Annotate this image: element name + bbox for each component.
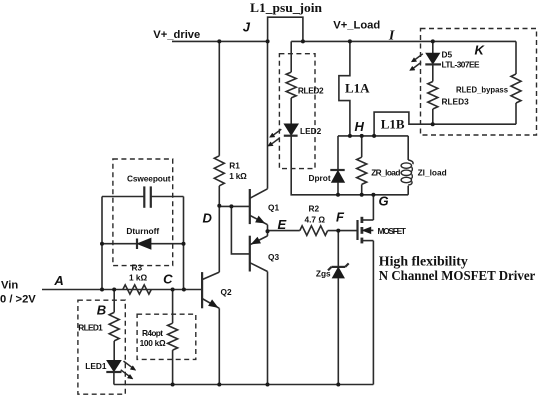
inductor Zl_load coil	[401, 136, 447, 195]
svg-text:1 kΩ: 1 kΩ	[129, 273, 148, 283]
svg-text:Dprot: Dprot	[309, 173, 331, 183]
wire Q2 emitter down	[218, 308, 220, 384]
wire E to Q3 emitter	[267, 231, 269, 236]
svg-text:B: B	[97, 302, 106, 317]
wire MOSFET source down	[372, 241, 374, 385]
resistor RLED2	[286, 72, 296, 98]
resistor R2	[300, 226, 328, 236]
svg-text:F: F	[336, 210, 345, 225]
LED D LED2	[284, 124, 298, 135]
svg-text:Dturnoff: Dturnoff	[126, 226, 159, 236]
dashed box B	[78, 300, 125, 394]
D5 emission arrows	[410, 54, 423, 71]
dashed box Csweepout/Dturnoff	[113, 159, 173, 266]
dashed box LED2	[279, 54, 315, 169]
resistor RLED_bypass	[511, 74, 521, 103]
diode Dturnoff	[102, 243, 184, 245]
resistor RLED3	[428, 82, 438, 110]
wire R2 to gate	[328, 230, 358, 232]
LED D LED1	[107, 361, 121, 372]
svg-text:ZR_load: ZR_load	[371, 168, 400, 178]
wire bottom common rail	[114, 384, 374, 386]
svg-text:4.7 Ω: 4.7 Ω	[305, 214, 326, 224]
svg-text:Zl_load: Zl_load	[418, 168, 447, 178]
svg-text:N Channel MOSFET Driver: N Channel MOSFET Driver	[379, 269, 536, 284]
LED D5	[425, 41, 480, 81]
resistor RLED1	[109, 312, 119, 341]
node junction dots Dturnoff line	[100, 242, 104, 246]
svg-text:Zgs: Zgs	[316, 268, 331, 278]
wire D to Q1 base	[219, 205, 250, 207]
LED1 emission arrows	[121, 361, 136, 379]
wire V+_drive rail	[172, 40, 268, 42]
wire MOSFET drain to G	[372, 195, 374, 220]
svg-text:C: C	[163, 272, 173, 287]
svg-text:V+_Load: V+_Load	[333, 19, 380, 31]
LED2 emission arrows	[268, 129, 282, 146]
svg-text:I: I	[388, 28, 395, 43]
inductor L1B	[374, 112, 433, 136]
svg-text:G: G	[379, 194, 389, 209]
wire Q1 emitter to E	[267, 225, 269, 232]
wire base to Q3	[231, 206, 249, 254]
inductor L1_psu_join bridge	[268, 17, 303, 41]
resistor R4opt	[168, 323, 178, 350]
svg-text:D: D	[203, 211, 213, 226]
resistor R3	[123, 285, 152, 294]
svg-text:E: E	[278, 217, 287, 232]
svg-text:R1: R1	[229, 161, 240, 171]
svg-text:100 kΩ: 100 kΩ	[140, 338, 166, 348]
svg-text:RLED1: RLED1	[78, 323, 103, 333]
capacitor Csweepout	[102, 196, 144, 198]
svg-text:V+_drive: V+_drive	[153, 29, 200, 41]
svg-text:RLED3: RLED3	[442, 97, 470, 107]
svg-text:J: J	[243, 20, 251, 35]
zener Zgs	[316, 231, 349, 385]
resistor R1	[214, 156, 224, 186]
wire Vin input line	[42, 289, 202, 291]
wire Q2 collector to D	[218, 206, 220, 272]
svg-text:RLED2: RLED2	[298, 85, 324, 95]
transistor Q1	[250, 189, 280, 225]
svg-text:High flexibility: High flexibility	[379, 255, 468, 270]
wire J vertical to Q1 collector	[267, 41, 269, 188]
svg-text:0 / >2V: 0 / >2V	[0, 294, 36, 306]
svg-text:D5: D5	[442, 50, 453, 60]
svg-text:Q1: Q1	[268, 203, 279, 213]
resistor ZR_load	[357, 157, 367, 184]
wire K bottom line	[433, 123, 516, 125]
svg-text:Q2: Q2	[221, 287, 232, 297]
svg-text:1 kΩ: 1 kΩ	[229, 171, 247, 181]
inductor L1A	[339, 41, 350, 135]
wire E to R2	[268, 230, 300, 232]
svg-text:R2: R2	[309, 203, 320, 213]
svg-text:A: A	[53, 273, 63, 288]
wire V+_Load rail	[291, 40, 516, 42]
svg-text:RLED_bypass: RLED_bypass	[456, 85, 508, 95]
wire Q3 collector down	[267, 272, 269, 385]
wire right leg	[183, 197, 185, 290]
svg-text:LED1: LED1	[85, 361, 107, 371]
svg-text:R4opt: R4opt	[142, 328, 163, 338]
wire H node line	[338, 135, 408, 137]
svg-text:Csweepout: Csweepout	[127, 174, 171, 184]
svg-text:Vin: Vin	[1, 280, 18, 292]
wire left leg	[101, 197, 103, 290]
svg-text:L1A: L1A	[345, 80, 370, 95]
svg-text:LED2: LED2	[300, 126, 322, 136]
svg-text:L1B: L1B	[381, 117, 405, 132]
wire LED2 to G line	[291, 136, 408, 195]
svg-text:K: K	[475, 42, 486, 57]
dashed box K	[421, 29, 537, 136]
transistor Q2	[202, 272, 232, 308]
dashed box R4opt	[137, 314, 196, 359]
svg-text:Q3: Q3	[268, 252, 279, 262]
svg-text:MOSFET: MOSFET	[378, 226, 407, 236]
transistor MOSFET N-channel	[358, 217, 407, 244]
svg-text:L1_psu_join: L1_psu_join	[250, 0, 323, 15]
svg-text:LTL-307EE: LTL-307EE	[442, 60, 480, 70]
svg-text:H: H	[355, 119, 365, 134]
diode Dprot	[309, 136, 345, 195]
transistor Q3	[250, 236, 280, 272]
svg-text:R3: R3	[132, 263, 143, 273]
